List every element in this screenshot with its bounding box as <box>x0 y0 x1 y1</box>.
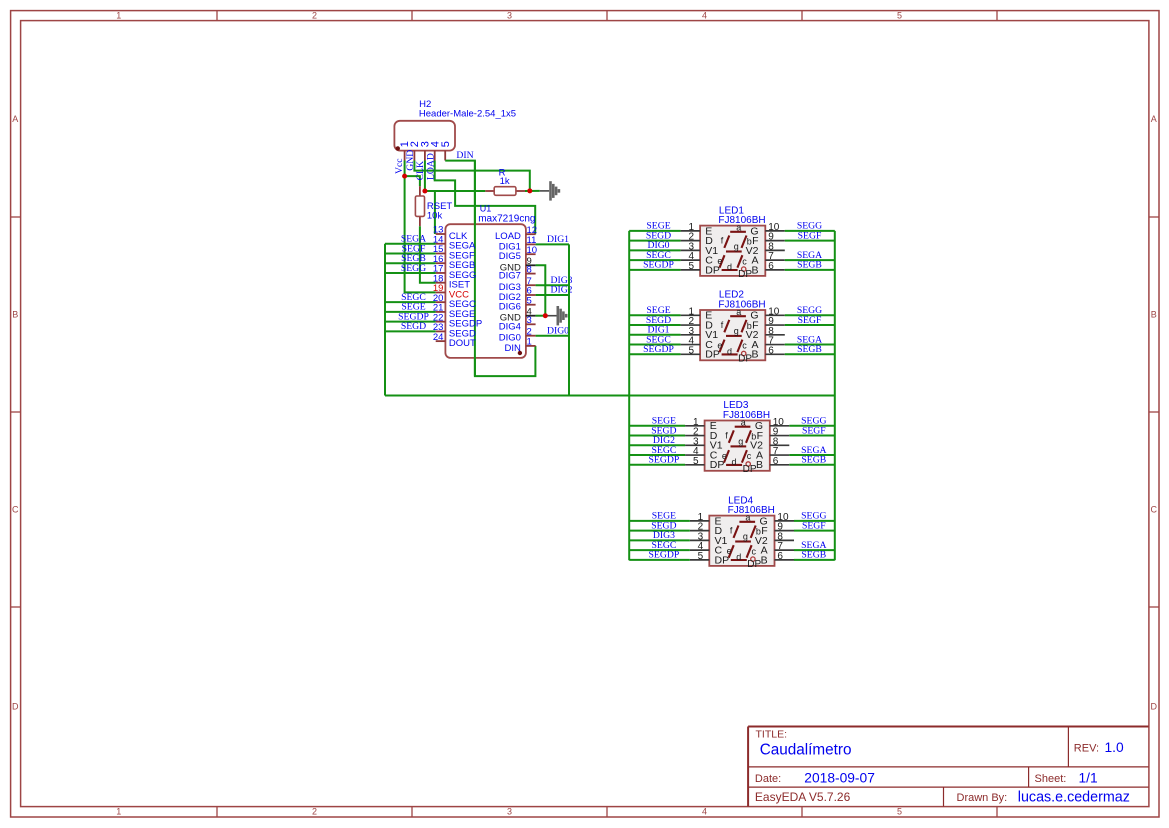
svg-text:d: d <box>736 552 741 562</box>
svg-text:DP: DP <box>747 559 761 570</box>
wire RSET bottom to U1 pin18 ISET <box>420 226 436 283</box>
LED1 segment graphics <box>720 232 747 271</box>
svg-text:d: d <box>727 347 732 357</box>
svg-text:5: 5 <box>688 261 694 272</box>
svg-text:C: C <box>12 505 19 515</box>
svg-text:5: 5 <box>688 345 694 356</box>
LED2 segment letters <box>717 307 752 365</box>
ground symbol at U1 GND pins <box>545 306 567 325</box>
svg-text:SEGB: SEGB <box>797 260 822 271</box>
wire SEGG from rail to U1 <box>385 272 436 274</box>
svg-text:d: d <box>732 457 737 467</box>
svg-text:max7219cng: max7219cng <box>478 213 535 224</box>
svg-text:b: b <box>747 237 752 247</box>
junction Vcc-RSET <box>402 174 407 179</box>
U1 right pin stubs 12-1 <box>526 234 536 346</box>
svg-text:FJ8106BH: FJ8106BH <box>718 215 765 226</box>
wire DIG0 from U1 pin2 <box>536 335 569 337</box>
LED1 segment letters <box>717 223 752 281</box>
svg-text:10: 10 <box>527 245 538 256</box>
wire SEGF from rail to U1 <box>385 252 436 254</box>
LED1 pin names <box>705 225 758 276</box>
wire Vcc vertical from H2 pin1 to U1 pin19 row <box>405 161 436 293</box>
connector H2 pins 1-5 stubs <box>405 151 446 161</box>
wire LED right rail <box>834 231 836 560</box>
svg-text:FJ8106BH: FJ8106BH <box>718 300 765 311</box>
svg-text:c: c <box>752 546 757 556</box>
svg-text:6: 6 <box>773 456 779 467</box>
svg-text:e: e <box>727 546 732 556</box>
svg-text:DP: DP <box>715 554 730 566</box>
svg-text:a: a <box>736 307 741 317</box>
svg-text:5: 5 <box>897 10 902 20</box>
wire U1 pin9 GND to junction <box>536 265 546 315</box>
svg-text:c: c <box>747 451 752 461</box>
svg-text:2: 2 <box>312 10 317 20</box>
LED2 segment graphics <box>720 316 747 355</box>
LED3 pin names <box>710 420 763 471</box>
wire U1-left vertical rail <box>384 244 386 396</box>
svg-text:B: B <box>751 349 758 361</box>
op-amp U1 body (max7219cng) <box>445 224 526 358</box>
U1 left pin stubs 13-24 <box>436 234 446 341</box>
svg-text:a: a <box>741 418 746 428</box>
LED4 left wires <box>629 521 690 560</box>
svg-text:SEGDP: SEGDP <box>649 550 680 561</box>
svg-text:2018-09-07: 2018-09-07 <box>804 770 875 785</box>
svg-text:g: g <box>738 437 743 447</box>
svg-text:DP: DP <box>705 264 720 276</box>
wire SEGB from rail to U1 <box>385 262 436 264</box>
svg-text:a: a <box>736 223 741 233</box>
svg-text:SEGF: SEGF <box>798 230 822 241</box>
LED3 pin numbers <box>693 417 784 467</box>
svg-text:2: 2 <box>312 807 317 817</box>
LED3 7-segment display body <box>705 421 770 471</box>
svg-text:Sheet:: Sheet: <box>1035 773 1067 785</box>
svg-text:DIG6: DIG6 <box>499 302 521 313</box>
LED3 left wires <box>629 426 685 465</box>
svg-text:g: g <box>734 326 739 336</box>
svg-text:FJ8106BH: FJ8106BH <box>728 505 775 516</box>
svg-text:SEGB: SEGB <box>797 344 822 355</box>
frame row letters A-D <box>12 114 1158 712</box>
U1 pin-1 marker <box>518 351 522 355</box>
svg-text:TITLE:: TITLE: <box>756 729 788 741</box>
svg-text:1.0: 1.0 <box>1105 740 1125 755</box>
svg-text:b: b <box>747 321 752 331</box>
svg-text:4: 4 <box>702 807 707 817</box>
svg-text:6: 6 <box>777 551 783 562</box>
svg-text:SEGDP: SEGDP <box>643 260 674 271</box>
LED2 pin numbers <box>688 306 779 356</box>
LED1 pin numbers <box>688 222 779 272</box>
wire R right to ground junction <box>525 190 540 192</box>
wire SEGE from rail to U1 <box>385 311 436 313</box>
svg-text:DP: DP <box>738 354 752 365</box>
wire DIG1 from U1 pin11 <box>536 243 569 245</box>
connector H2 pin numbers 1-5 <box>399 141 452 147</box>
svg-text:24: 24 <box>433 332 444 343</box>
svg-text:DIG1: DIG1 <box>547 234 569 245</box>
wire DIN vertical crossing U1 <box>474 161 476 377</box>
LED4 right wires <box>794 521 835 560</box>
svg-text:g: g <box>734 242 739 252</box>
svg-text:SEGF: SEGF <box>798 315 822 326</box>
connector H2 body <box>394 121 455 151</box>
svg-text:DP: DP <box>743 464 757 475</box>
resistor R body <box>494 187 516 196</box>
wire DIG3 from U1 pin7 <box>536 284 569 286</box>
svg-text:3: 3 <box>507 807 512 817</box>
wire SEGC from rail to U1 <box>385 301 436 303</box>
svg-text:10k: 10k <box>427 210 443 221</box>
svg-text:B: B <box>751 264 758 276</box>
svg-text:DP: DP <box>705 349 720 361</box>
wire U1 pin4 GND <box>536 315 546 317</box>
wire SEGDP from rail to U1 <box>385 321 436 323</box>
LED2 left wires <box>629 315 680 354</box>
LED3 segment graphics <box>724 427 751 466</box>
svg-text:SEGB: SEGB <box>801 455 826 466</box>
svg-text:c: c <box>742 341 747 351</box>
svg-text:5: 5 <box>440 141 452 147</box>
resistor R stubs <box>485 190 494 192</box>
U1 left pin numbers <box>433 225 444 343</box>
svg-text:b: b <box>756 527 761 537</box>
svg-text:DP: DP <box>710 459 725 471</box>
svg-text:REV:: REV: <box>1074 743 1099 755</box>
junction U1 GND <box>543 313 548 318</box>
svg-text:U1: U1 <box>480 204 492 214</box>
svg-text:D: D <box>1150 702 1157 712</box>
wire bottom bus horizontal <box>385 395 835 397</box>
svg-text:DIG5: DIG5 <box>499 251 521 262</box>
svg-text:b: b <box>751 432 756 442</box>
svg-text:3: 3 <box>527 315 532 326</box>
svg-text:EasyEDA V5.7.26: EasyEDA V5.7.26 <box>755 790 851 804</box>
LED1 7-segment display body <box>700 226 765 276</box>
svg-text:4: 4 <box>702 10 707 20</box>
svg-text:1: 1 <box>116 807 121 817</box>
svg-text:SEGB: SEGB <box>801 550 826 561</box>
svg-text:1k: 1k <box>500 176 510 187</box>
svg-text:DIN: DIN <box>456 150 473 161</box>
svg-text:B: B <box>1151 310 1157 320</box>
svg-text:SEGDP: SEGDP <box>649 455 680 466</box>
svg-text:3: 3 <box>507 10 512 20</box>
svg-text:Drawn By:: Drawn By: <box>957 792 1008 804</box>
svg-text:C: C <box>1150 505 1157 515</box>
svg-text:D: D <box>12 702 19 712</box>
LED1 right wires <box>785 231 835 270</box>
svg-text:Date:: Date: <box>755 773 781 785</box>
resistor RSET stubs <box>419 186 421 196</box>
wire LED left rail <box>628 231 630 560</box>
svg-text:DOUT: DOUT <box>449 338 476 349</box>
ground symbol (CLK pulldown) <box>540 181 560 200</box>
svg-text:1/1: 1/1 <box>1079 770 1098 785</box>
wire DIG vertical rail <box>568 244 570 395</box>
svg-text:Header-Male-2.54_1x5: Header-Male-2.54_1x5 <box>419 109 516 120</box>
svg-text:a: a <box>745 513 750 523</box>
LED1 left wires <box>629 231 680 270</box>
junction R-GND <box>527 188 532 193</box>
U1 left pin names <box>449 231 482 349</box>
wire CLK node to resistor R left <box>425 190 485 192</box>
svg-text:e: e <box>717 256 722 266</box>
U1 right pin names <box>495 231 521 354</box>
LED3 pin stubs <box>685 426 789 465</box>
wire SEGA from rail to U1 <box>385 243 436 245</box>
LED2 right wires <box>785 315 835 354</box>
svg-text:DP: DP <box>738 269 752 280</box>
svg-text:5: 5 <box>897 807 902 817</box>
resistor RSET body <box>415 196 424 216</box>
LED4 pin numbers <box>698 512 789 562</box>
svg-text:5: 5 <box>693 456 699 467</box>
LED2 pin stubs <box>681 315 785 354</box>
LED4 pin names <box>715 515 768 566</box>
LED4 pin stubs <box>690 521 794 560</box>
wire LOAD from H2 pin4 to U1 pin12 <box>435 161 536 235</box>
svg-text:SEGDP: SEGDP <box>643 344 674 355</box>
wire GND from H2 pin2 to ground junction <box>414 161 529 191</box>
svg-text:lucas.e.cedermaz: lucas.e.cedermaz <box>1018 790 1130 806</box>
frame column numbers 1-5 <box>116 10 902 816</box>
wire SEGD from rail to U1 <box>385 330 436 332</box>
svg-text:B: B <box>756 459 763 471</box>
svg-text:SEGF: SEGF <box>802 520 826 531</box>
LED2 pin names <box>705 310 758 361</box>
title block border lines <box>748 727 1148 807</box>
LED4 segment graphics <box>729 522 756 562</box>
junction CLK node <box>422 189 427 194</box>
svg-text:1: 1 <box>527 337 532 348</box>
wire CLK from H2 pin3 down <box>424 161 426 192</box>
svg-text:Caudalímetro: Caudalímetro <box>760 742 852 759</box>
svg-text:8: 8 <box>527 264 532 275</box>
LED3 right wires <box>789 426 835 465</box>
LED2 7-segment display body <box>700 310 765 360</box>
svg-text:DIG0: DIG0 <box>547 325 569 336</box>
svg-text:A: A <box>1151 114 1157 124</box>
U1 right pin numbers <box>527 225 538 348</box>
svg-text:e: e <box>717 340 722 350</box>
svg-text:c: c <box>742 256 747 266</box>
svg-text:DIG7: DIG7 <box>499 271 521 282</box>
svg-text:B: B <box>12 310 18 320</box>
svg-text:e: e <box>722 451 727 461</box>
wire Vcc branch to RSET top <box>405 176 420 186</box>
svg-text:d: d <box>727 262 732 272</box>
wire DIG2 from U1 pin6 <box>536 294 569 296</box>
LED4 segment letters <box>727 513 762 571</box>
svg-text:B: B <box>761 554 768 566</box>
svg-text:A: A <box>12 114 18 124</box>
connector H2 pin-1 marker <box>396 146 400 150</box>
svg-text:6: 6 <box>768 345 774 356</box>
svg-text:SEGF: SEGF <box>802 425 826 436</box>
svg-text:6: 6 <box>768 261 774 272</box>
svg-text:FJ8106BH: FJ8106BH <box>723 410 770 421</box>
LED3 segment letters <box>722 418 757 476</box>
svg-text:5: 5 <box>527 295 532 306</box>
svg-text:g: g <box>743 532 748 542</box>
wire CLK branch to U1 pin13 <box>434 191 436 234</box>
wire DIN from H2 pin5 to U1 pin1 <box>445 161 535 377</box>
svg-text:Vcc: Vcc <box>394 158 405 174</box>
LED1 pin stubs <box>681 231 785 270</box>
svg-text:LOAD: LOAD <box>425 153 436 180</box>
svg-text:5: 5 <box>698 551 704 562</box>
svg-text:1: 1 <box>116 10 121 20</box>
LED4 7-segment display body <box>709 516 774 566</box>
svg-text:DIG4: DIG4 <box>499 321 521 332</box>
